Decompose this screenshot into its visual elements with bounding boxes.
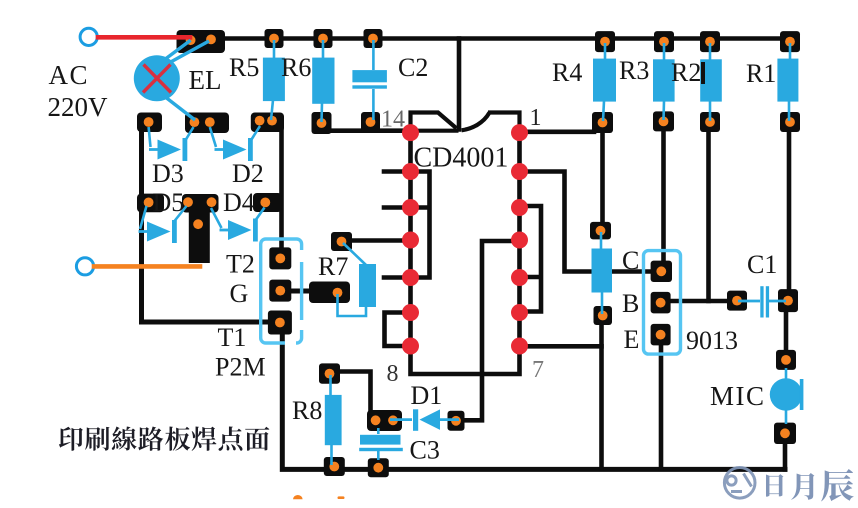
wire pin1 to R4 bottom pad bbox=[520, 130, 595, 135]
pad R5 top bbox=[265, 29, 284, 48]
op-amp U1 CD4001 IC outline bbox=[411, 113, 520, 375]
pad EL top (AC live) bbox=[177, 30, 226, 53]
resistor R5 bbox=[263, 40, 285, 120]
pad R2 bottom bbox=[700, 112, 720, 132]
pad MIC top bbox=[776, 350, 796, 370]
svg-text:R3: R3 bbox=[619, 56, 649, 85]
wire R8 pad to D1 anode pad bbox=[336, 372, 371, 414]
pad B transistor bbox=[651, 292, 671, 314]
wire G to R7 pad bbox=[288, 289, 315, 294]
bracket transistor 9013 outline bbox=[644, 251, 681, 355]
IC pin dot left 14 bbox=[402, 124, 419, 141]
wire MIC to bottom rail bbox=[783, 442, 788, 469]
svg-text:R4: R4 bbox=[552, 58, 582, 87]
wire stub pin12 bbox=[384, 205, 410, 210]
IC pin dot left 11 bbox=[402, 232, 419, 249]
svg-text:14: 14 bbox=[381, 107, 405, 133]
watermark logo circle bbox=[724, 468, 755, 499]
microphone MIC bbox=[770, 368, 804, 424]
pad E transistor bbox=[651, 324, 671, 346]
pad R8 bottom bbox=[324, 457, 345, 476]
wire right bracket pins 3-5-6 bbox=[520, 206, 542, 312]
resistor R3 bbox=[653, 43, 675, 120]
caption 印刷线路板焊点面 bbox=[59, 426, 269, 450]
terminal AC live bbox=[80, 28, 97, 45]
bracket triac T1/T2/G outline bbox=[261, 239, 302, 343]
partial pad bottom left bbox=[293, 495, 303, 499]
pad R3 bottom bbox=[653, 111, 674, 131]
svg-text:R5: R5 bbox=[229, 53, 259, 82]
svg-text:G: G bbox=[230, 279, 249, 308]
wire stub pin10 bbox=[384, 275, 410, 280]
svg-text:R1: R1 bbox=[746, 59, 776, 88]
wire R4 pad down-link bbox=[600, 132, 605, 224]
resistor R2 bbox=[700, 43, 722, 121]
pad G bbox=[269, 280, 291, 302]
wire R3 column to C pad bbox=[661, 132, 666, 263]
pad R2 top bbox=[700, 31, 720, 52]
wire AC neutral (orange) bbox=[94, 264, 200, 269]
svg-text:D2: D2 bbox=[232, 159, 264, 188]
wire inner bracket pins 13-12-10 bbox=[411, 172, 430, 278]
svg-text:R6: R6 bbox=[281, 53, 311, 82]
pad C1 right bbox=[778, 289, 798, 312]
wire pin7 to ground column bbox=[520, 344, 602, 349]
pad D5 anode bbox=[137, 194, 164, 213]
pad T2 bbox=[269, 247, 291, 269]
pad R7 top bbox=[331, 232, 352, 251]
IC pin dot right 1 bbox=[511, 124, 528, 141]
pad Rc bottom bbox=[594, 306, 613, 325]
resistor R8 bbox=[325, 375, 342, 465]
pad D4 cathode bbox=[253, 193, 282, 212]
pad MIC bottom bbox=[774, 423, 796, 444]
wire top rail bbox=[196, 36, 788, 41]
resistor Rc (collector) bbox=[592, 232, 613, 314]
pad R1 top bbox=[780, 31, 800, 52]
wire E pad to rail bbox=[659, 344, 664, 469]
pad T1 bbox=[268, 311, 292, 335]
resistor R1 bbox=[777, 43, 798, 121]
wire B pad to C1 bbox=[669, 299, 735, 304]
svg-text:D4: D4 bbox=[223, 188, 255, 217]
pad D1 cathode bbox=[448, 411, 465, 431]
svg-text:CD4001: CD4001 bbox=[414, 143, 509, 174]
svg-text:R2: R2 bbox=[671, 58, 701, 87]
IC pin dot left 10 bbox=[402, 269, 419, 286]
pad R5 bottom double bbox=[251, 113, 284, 133]
svg-text:D1: D1 bbox=[411, 381, 443, 410]
svg-text:220V: 220V bbox=[48, 92, 109, 122]
pad R1 bottom bbox=[780, 112, 800, 132]
svg-text:D3: D3 bbox=[152, 159, 184, 188]
resistor R6 bbox=[312, 40, 334, 122]
IC pin dot left 13 bbox=[402, 163, 419, 180]
IC pin dot right 3 bbox=[511, 199, 528, 216]
diode D4 bbox=[211, 208, 265, 242]
pad D1 anode double bbox=[367, 410, 402, 431]
pad T-block stem to AC neutral bbox=[189, 210, 210, 263]
pad T-block D5/D4 junction bbox=[182, 194, 219, 213]
pad C1 left bbox=[727, 291, 747, 311]
lamp EL bbox=[134, 40, 209, 120]
wire outer bracket pins 9-8 bbox=[385, 313, 411, 347]
svg-text:D5: D5 bbox=[153, 188, 185, 217]
diode D2 bbox=[210, 126, 260, 161]
svg-text:MIC: MIC bbox=[710, 381, 766, 411]
wire resistor column to rail bbox=[599, 323, 604, 469]
IC pin dot left 9 bbox=[402, 304, 419, 321]
diode D1 bbox=[390, 409, 459, 431]
pad EL bottom double bbox=[185, 113, 229, 134]
watermark 日 bbox=[766, 474, 783, 497]
wire R6/C2 bottom to IC pin14 corner bbox=[326, 128, 411, 133]
wire pin2 to C node bbox=[520, 172, 653, 272]
svg-text:C: C bbox=[622, 246, 639, 275]
capacitor C3 bbox=[359, 428, 403, 460]
IC pin dot right 5 bbox=[511, 269, 528, 286]
svg-text:8: 8 bbox=[387, 361, 399, 387]
IC pin dot left 8 bbox=[402, 338, 419, 355]
pad C2 top bbox=[364, 29, 383, 48]
svg-text:C2: C2 bbox=[398, 53, 428, 82]
capacitor C1 bbox=[738, 286, 786, 317]
wire supply drop to IC notch bbox=[457, 39, 462, 130]
pad R7 bottom bar bbox=[309, 282, 350, 304]
pad C2 bottom bbox=[361, 112, 380, 132]
svg-text:R8: R8 bbox=[292, 396, 322, 425]
IC pin dot right 4 bbox=[511, 232, 528, 249]
watermark 辰 bbox=[821, 469, 853, 501]
pad R6 top bbox=[314, 29, 333, 48]
svg-text:T2: T2 bbox=[226, 250, 255, 279]
pad R4 bottom bbox=[592, 112, 613, 133]
pad R6 bottom bbox=[312, 112, 332, 134]
svg-text:AC: AC bbox=[49, 60, 90, 90]
wire left AC column bbox=[142, 126, 273, 322]
wire R1 column to C1 right pad bbox=[787, 132, 792, 292]
IC pin dot left 12 bbox=[402, 199, 419, 216]
partial pad bottom right bbox=[338, 496, 345, 499]
terminal AC neutral bbox=[76, 258, 93, 275]
wire pin4 to D1 cathode pad bbox=[462, 241, 520, 420]
pad C transistor bbox=[651, 261, 672, 282]
IC pin dot right 2 bbox=[511, 163, 528, 180]
wire R2 column to B node bbox=[706, 132, 711, 301]
svg-text:9013: 9013 bbox=[686, 326, 738, 355]
wire T1 to bottom rail bbox=[282, 330, 785, 469]
wire C1 right pad to MIC bbox=[784, 312, 789, 352]
resistor R4 bbox=[593, 43, 616, 121]
IC pin dot right 7 bbox=[511, 338, 528, 355]
svg-text:EL: EL bbox=[189, 65, 222, 95]
resistor R7 bbox=[338, 243, 377, 316]
svg-text:1: 1 bbox=[530, 105, 542, 131]
wire R7 top pad to IC pin bbox=[350, 238, 410, 243]
pad D3 anode bbox=[137, 113, 162, 133]
svg-text:7: 7 bbox=[532, 357, 544, 383]
diode D3 bbox=[149, 127, 194, 161]
diode D5 bbox=[139, 206, 187, 243]
svg-text:C1: C1 bbox=[747, 250, 777, 279]
pad R4 top bbox=[595, 31, 615, 52]
svg-text:R7: R7 bbox=[318, 252, 348, 281]
svg-text:B: B bbox=[622, 289, 639, 318]
pad R3 top bbox=[654, 31, 674, 52]
pad C3 bottom bbox=[368, 458, 389, 477]
svg-text:C3: C3 bbox=[410, 436, 440, 465]
artifact bar after R2 bbox=[701, 62, 705, 84]
svg-text:E: E bbox=[624, 325, 640, 354]
IC pin dot right 6 bbox=[511, 304, 528, 321]
wire EL pad column to T2 bbox=[279, 127, 284, 252]
wire stub pin13 bbox=[384, 169, 410, 174]
watermark 月 bbox=[791, 473, 814, 500]
pad R8 top bbox=[319, 363, 340, 383]
wire AC live (red) bbox=[98, 35, 190, 40]
svg-text:T1: T1 bbox=[218, 323, 247, 352]
svg-text:P2M: P2M bbox=[215, 353, 266, 382]
capacitor C2 bbox=[352, 40, 387, 120]
pad Rc top bbox=[590, 222, 611, 240]
